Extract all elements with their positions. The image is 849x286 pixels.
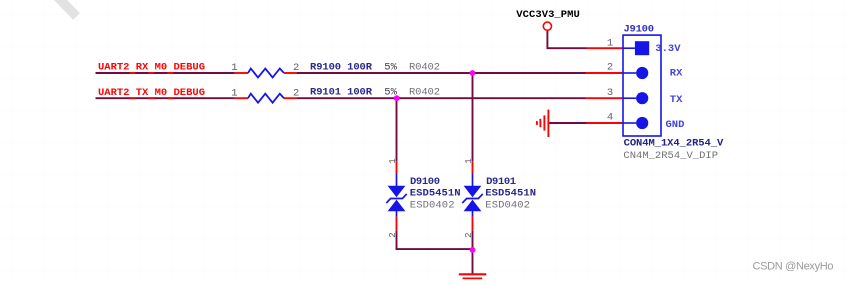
svg-text:D9101: D9101 [486, 176, 516, 188]
svg-text:UART2 TX M0 DEBUG: UART2 TX M0 DEBUG [98, 87, 205, 99]
svg-text:3: 3 [607, 87, 613, 99]
svg-text:R0402: R0402 [409, 61, 440, 73]
svg-text:2: 2 [293, 62, 299, 74]
svg-text:UART2 RX M0 DEBUG: UART2 RX M0 DEBUG [98, 62, 205, 74]
svg-text:5%: 5% [384, 87, 397, 99]
svg-text:ESD0402: ESD0402 [410, 199, 455, 211]
svg-text:ESD0402: ESD0402 [485, 199, 530, 211]
svg-text:R9100 100R: R9100 100R [310, 61, 373, 73]
svg-text:D9100: D9100 [410, 176, 440, 188]
svg-text:CN4M_2R54_V_DIP: CN4M_2R54_V_DIP [623, 150, 718, 162]
svg-text:1: 1 [231, 62, 237, 74]
svg-text:GND: GND [666, 119, 685, 131]
svg-text:2: 2 [293, 87, 299, 99]
svg-text:1: 1 [464, 158, 474, 163]
svg-text:ESD5451N: ESD5451N [410, 187, 461, 199]
svg-text:5%: 5% [384, 61, 397, 73]
svg-text:R0402: R0402 [409, 87, 440, 99]
svg-text:R9101 100R: R9101 100R [310, 87, 373, 99]
svg-text:2: 2 [607, 61, 613, 73]
svg-text:VCC3V3_PMU: VCC3V3_PMU [516, 9, 580, 21]
svg-text:1: 1 [231, 87, 237, 99]
svg-text:ESD5451N: ESD5451N [485, 187, 536, 199]
svg-text:TX: TX [670, 94, 683, 106]
svg-text:1: 1 [388, 158, 398, 163]
svg-text:J9100: J9100 [624, 24, 655, 36]
svg-text:CON4M_1X4_2R54_V: CON4M_1X4_2R54_V [624, 137, 724, 149]
svg-text:4: 4 [607, 111, 613, 123]
svg-text:RX: RX [670, 68, 683, 80]
svg-text:2: 2 [464, 232, 474, 237]
svg-text:CSDN @NexyHo: CSDN @NexyHo [753, 260, 834, 272]
svg-text:3.3V: 3.3V [655, 43, 681, 55]
svg-text:1: 1 [607, 38, 613, 50]
svg-text:2: 2 [388, 232, 398, 237]
